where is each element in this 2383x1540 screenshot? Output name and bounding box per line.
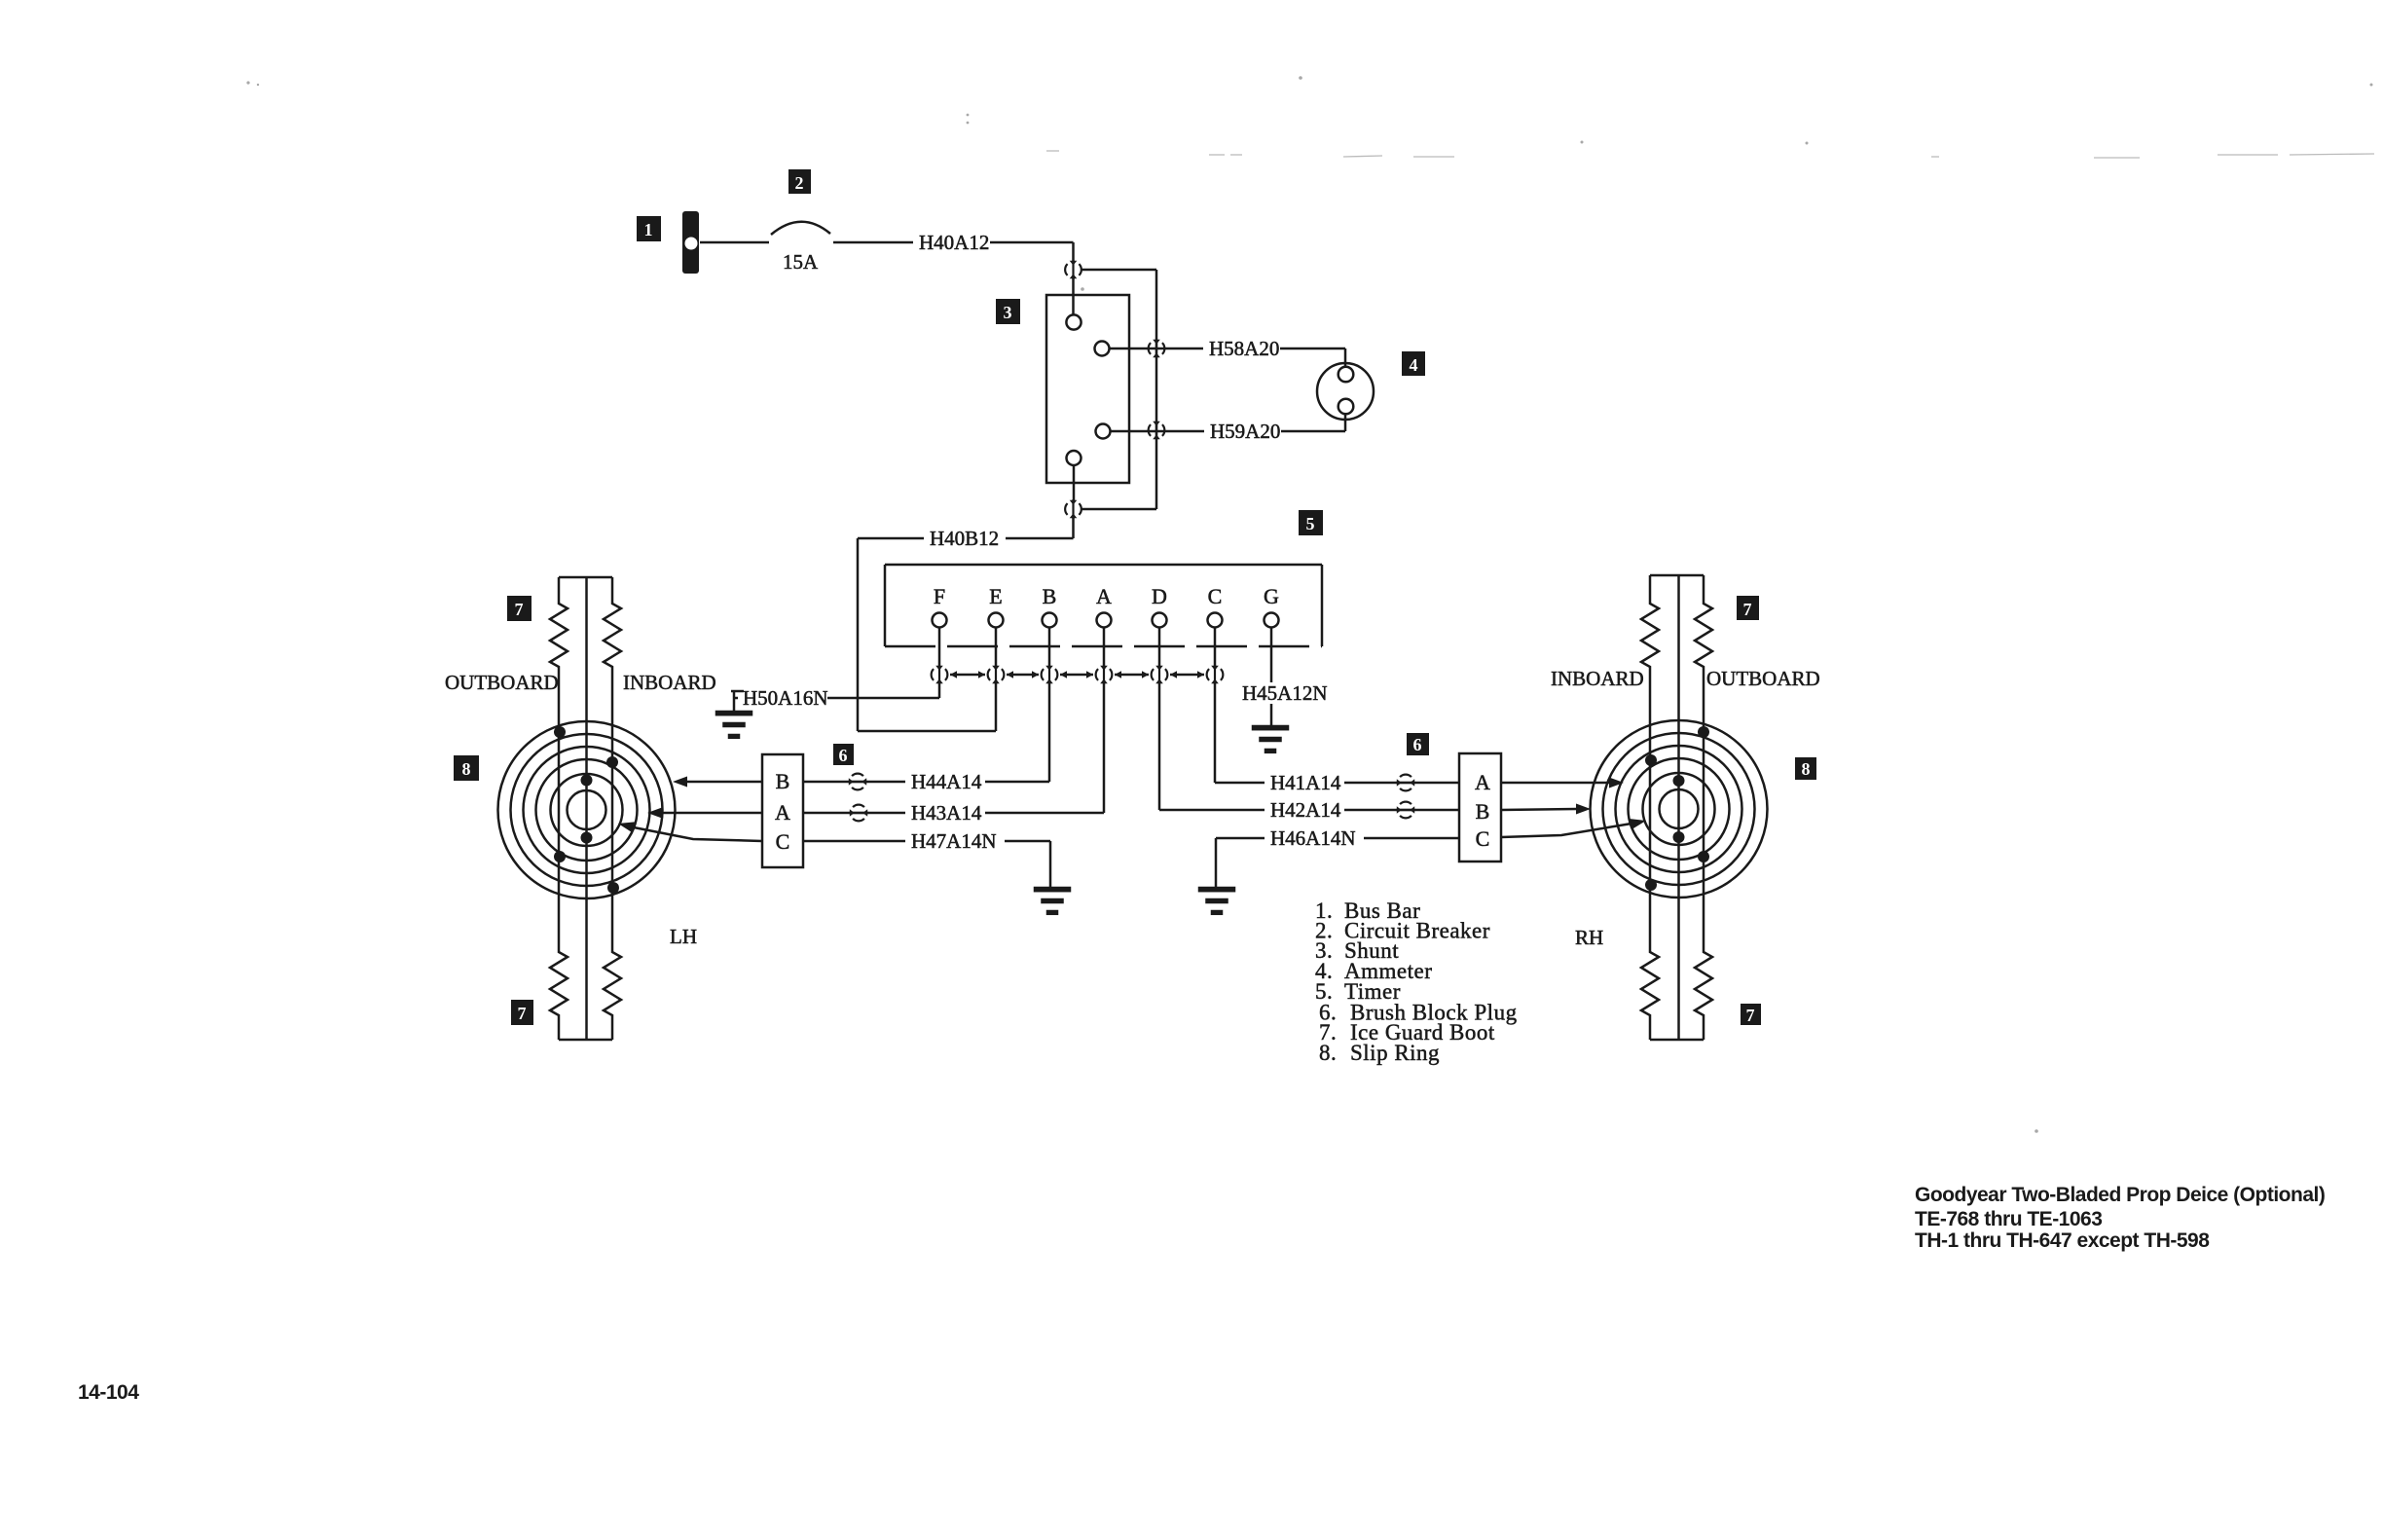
wire LH C to slip ring (634, 827, 762, 841)
wire LH B to slip ring (686, 781, 762, 784)
svg-text:H43A14: H43A14 (911, 801, 982, 825)
wire bus bar to circuit breaker (700, 241, 769, 244)
svg-text:OUTBOARD: OUTBOARD (445, 671, 559, 694)
svg-text:OUTBOARD: OUTBOARD (1706, 667, 1820, 690)
wire H40B12 horizontal (858, 537, 1074, 540)
wire H45A12N pin G (1236, 682, 1330, 706)
connector pin C (1207, 665, 1224, 684)
pin D drop to H42A14 (1158, 683, 1161, 810)
connector pin B (1042, 665, 1058, 684)
connector top (1065, 260, 1082, 279)
connector H42A14 (1396, 802, 1415, 819)
svg-text:C: C (1476, 826, 1490, 851)
svg-text:H40A12: H40A12 (919, 231, 989, 254)
svg-text:A: A (1475, 770, 1490, 794)
shunt terminal lower right (1096, 424, 1111, 439)
slip ring RH contact dots (1645, 726, 1709, 891)
prop blade LH top cap (559, 576, 612, 579)
slip ring LH (8) (498, 721, 676, 898)
ground H45A12N (1253, 726, 1288, 752)
svg-text:1: 1 (644, 220, 653, 239)
pin C drop (1214, 628, 1217, 666)
wire shunt bottom to connector (1073, 465, 1076, 500)
pin B drop (1048, 628, 1051, 666)
chain wire F-E (950, 671, 985, 678)
slip ring RH (8) (1591, 720, 1768, 898)
title block (1915, 1184, 2325, 1252)
wire H40A12 (833, 241, 1074, 244)
wire H44A14 (803, 781, 1049, 784)
svg-text:6: 6 (839, 746, 848, 765)
svg-text:H40B12: H40B12 (930, 527, 999, 550)
shunt terminal upper right (1095, 342, 1110, 356)
svg-text:2: 2 (795, 173, 804, 193)
pin D drop (1158, 628, 1161, 666)
svg-text:H50A16N: H50A16N (743, 686, 828, 710)
shunt terminal bottom (1067, 451, 1082, 465)
prop blade RH top cap (1650, 574, 1704, 577)
wire corner down to connector (1072, 242, 1075, 261)
wire connector to shunt (1072, 278, 1075, 315)
svg-text:H46A14N: H46A14N (1270, 826, 1356, 850)
wire corner ammeter bottom (1344, 414, 1347, 431)
svg-text:E: E (989, 584, 1002, 608)
svg-text:D: D (1152, 584, 1167, 608)
wire loop up to pin E (995, 682, 998, 731)
wire H46A14N down (1215, 838, 1218, 888)
wire H40B12 descent (1072, 518, 1075, 538)
svg-text:C: C (1208, 584, 1223, 608)
svg-text:TE-768 thru TE-1063: TE-768 thru TE-1063 (1915, 1208, 2102, 1230)
svg-text:B: B (776, 769, 790, 793)
brush block plug LH (6) (762, 754, 803, 867)
svg-text:H45A12N: H45A12N (1242, 681, 1328, 705)
wire H47A14N down (1049, 841, 1052, 888)
connector H44A14 (848, 774, 867, 790)
label 6 right (1407, 733, 1429, 755)
label 7 bottom right (1741, 1004, 1761, 1025)
svg-text:H47A14N: H47A14N (911, 829, 997, 853)
label 2 (788, 169, 811, 194)
svg-text:15A: 15A (783, 250, 819, 274)
shunt terminal top (1066, 314, 1081, 329)
pin G drop (1270, 628, 1273, 683)
wire RH A to slip ring (1501, 782, 1610, 785)
bus bar (1) (682, 211, 699, 274)
label 8 right (1795, 757, 1816, 780)
connector H43A14 (849, 805, 868, 822)
wire H42A14 (1159, 809, 1459, 812)
svg-text:8: 8 (462, 759, 471, 779)
label 8 left (454, 755, 479, 781)
circuit breaker CB 15A (2) (771, 222, 830, 235)
connector pin F (932, 665, 948, 684)
svg-text:TH-1 thru TH-647 except TH-598: TH-1 thru TH-647 except TH-598 (1915, 1229, 2210, 1252)
svg-text:G: G (1264, 584, 1279, 608)
svg-text:6: 6 (1413, 735, 1422, 754)
pin E drop (995, 628, 998, 666)
svg-text:B: B (1043, 584, 1057, 608)
blade LH right edge with ice guard boot zigzag (604, 577, 621, 1040)
svg-text:H44A14: H44A14 (911, 770, 982, 793)
blade RH center line (1677, 575, 1680, 1040)
wire H50A16N from pin F (938, 683, 941, 698)
wire LH A to slip ring (661, 812, 762, 815)
label 7 top right (1737, 596, 1759, 620)
svg-text:14-104: 14-104 (78, 1381, 139, 1404)
connector on vertical at H59A20 (1149, 421, 1165, 440)
svg-text:4: 4 (1410, 355, 1418, 375)
svg-text:H42A14: H42A14 (1270, 798, 1341, 822)
prop blade RH bottom cap (1650, 1039, 1704, 1042)
connector H41A14 (1396, 775, 1415, 791)
label 5 (1299, 510, 1323, 535)
chain wire E-B (1007, 671, 1039, 678)
wire H46A14N (1216, 837, 1459, 840)
svg-text:8: 8 (1802, 759, 1811, 779)
svg-text:A: A (775, 800, 790, 825)
legend (1315, 898, 1518, 1065)
svg-text:7: 7 (1746, 1006, 1755, 1025)
svg-text:RH: RH (1575, 926, 1603, 949)
pin B drop to H44A14 (1048, 683, 1051, 782)
wire H41A14 (1215, 782, 1459, 785)
label 3 (996, 299, 1020, 324)
svg-text:INBOARD: INBOARD (623, 671, 716, 694)
prop blade LH bottom cap (559, 1039, 612, 1042)
connector pin E (988, 665, 1005, 684)
wire branch bottom (1081, 508, 1156, 511)
wire right vertical (1155, 270, 1158, 509)
label 1 (637, 216, 661, 241)
wire H47A14N (803, 840, 1050, 843)
blade RH right edge with ice guard boot zigzag (1695, 575, 1712, 1040)
svg-text:A: A (1096, 584, 1112, 608)
wire RH B to slip ring (1501, 809, 1577, 810)
connector on vertical at H58A20 (1149, 339, 1165, 358)
svg-text:H58A20: H58A20 (1209, 337, 1279, 360)
svg-text:8.: 8. (1319, 1041, 1337, 1065)
pin A drop to H43A14 (1103, 683, 1106, 813)
svg-text:7: 7 (1743, 600, 1752, 619)
shunt (3) (1046, 295, 1129, 483)
svg-text:H59A20: H59A20 (1210, 420, 1280, 443)
wire loop down (857, 538, 860, 731)
ground H50A16N (716, 712, 752, 738)
connector pin D (1152, 665, 1168, 684)
bracket to ground (731, 690, 744, 693)
wire H43A14 (803, 812, 1104, 815)
svg-text:F: F (934, 584, 945, 608)
svg-text:H41A14: H41A14 (1270, 771, 1341, 794)
label 4 (1402, 351, 1425, 376)
pin F drop (938, 628, 941, 666)
svg-text:B: B (1476, 799, 1490, 824)
svg-text:7: 7 (518, 1004, 527, 1023)
svg-text:5: 5 (1306, 514, 1315, 533)
chain wire B-A (1060, 671, 1093, 678)
label 7 bottom left (511, 1000, 533, 1025)
connector pin A (1096, 665, 1113, 684)
wire loop bottom (858, 730, 996, 733)
svg-text:Goodyear Two-Bladed Prop Deice: Goodyear Two-Bladed Prop Deice (Optional… (1915, 1184, 2325, 1206)
svg-text:INBOARD: INBOARD (1551, 667, 1644, 690)
blade LH center line (585, 577, 588, 1040)
ground H47A14N (1035, 888, 1070, 914)
svg-text:7: 7 (515, 600, 524, 619)
label 6 left (833, 744, 854, 765)
scan artifacts (1046, 151, 2374, 158)
timer (5) (885, 565, 1322, 646)
wire branch to right vertical (1081, 269, 1156, 272)
wire H58A20 (1110, 348, 1346, 350)
ammeter (4) (1317, 363, 1374, 420)
wire corner to ammeter top (1344, 348, 1347, 367)
pin A drop (1103, 628, 1106, 666)
svg-text:LH: LH (670, 925, 697, 948)
svg-text:3: 3 (1004, 303, 1012, 322)
ground H46A14N (1199, 888, 1234, 914)
pin C drop to H41A14 (1214, 683, 1217, 783)
connector bottom (1065, 499, 1082, 519)
svg-text:Slip Ring: Slip Ring (1350, 1041, 1440, 1065)
brush block plug RH (6) (1459, 753, 1501, 862)
chain wire D-C (1170, 671, 1204, 678)
blade RH left edge with ice guard boot zigzag (1641, 575, 1659, 1040)
label 7 top left (507, 596, 532, 621)
svg-text:C: C (776, 829, 790, 854)
wire RH C to slip ring (1501, 824, 1631, 837)
chain wire A-D (1115, 671, 1149, 678)
blade LH left edge with ice guard boot zigzag (550, 577, 568, 1040)
wire H59A20 (1111, 430, 1346, 433)
slip ring LH contact dots (554, 726, 619, 894)
